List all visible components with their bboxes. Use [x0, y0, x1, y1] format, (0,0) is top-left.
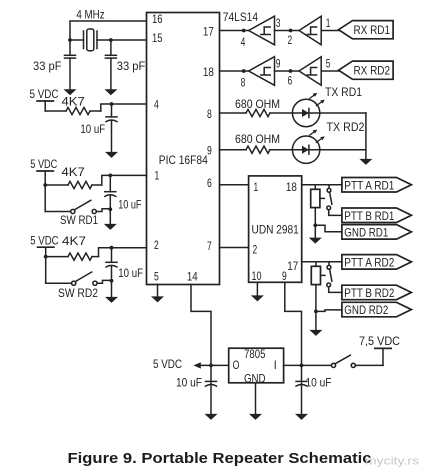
node switch/cap junction: [108, 207, 112, 211]
flag PTT B RD2: [342, 285, 412, 300]
wire 4K7 to pin 4: [101, 104, 147, 111]
svg-text:TX RD2: TX RD2: [327, 120, 365, 134]
wire LED2 to gnd rail: [320, 149, 366, 151]
inverter U2D: [299, 57, 321, 86]
node pin1/cap junction: [108, 174, 112, 178]
svg-text:GND RD1: GND RD1: [344, 225, 388, 239]
svg-text:5: 5: [326, 57, 331, 71]
wire 4K7 to pin 2: [99, 248, 147, 257]
node crystal-right junction: [109, 38, 113, 42]
wire junction to cap: [111, 248, 113, 263]
wire inverter3 out to inverter4 in: [275, 70, 300, 72]
node inverter4 input: [289, 69, 293, 73]
capacitor 10uF input: [296, 381, 307, 386]
flag PTT B RD1: [342, 208, 412, 223]
arrow 5VDC output: [194, 362, 201, 368]
svg-text:PIC 16F84: PIC 16F84: [159, 153, 208, 167]
svg-text:4: 4: [241, 35, 246, 49]
wire cap to ground: [111, 121, 113, 152]
5 VDC supply 3 (pin 2): [30, 234, 59, 284]
svg-text:6: 6: [207, 176, 212, 190]
capacitor 10uF output: [206, 381, 217, 386]
flag PTT A RD1: [342, 178, 412, 193]
wire PIC pin 6 to UDN pin 1: [220, 184, 249, 186]
node stem/resistor tap: [43, 183, 47, 187]
ground arrow RD2: [309, 330, 322, 336]
ground arrow 7805: [249, 414, 262, 420]
resistor 4K7 (pin 2): [46, 253, 99, 260]
svg-text:7805: 7805: [244, 347, 266, 361]
PIC 16F84 U1 box: [147, 13, 220, 285]
LED TX RD2: [292, 130, 324, 164]
node crystal-left junction: [68, 38, 72, 42]
wire cap to switch node: [111, 266, 113, 296]
svg-text:PTT B RD1: PTT B RD1: [344, 209, 394, 223]
wire resistor RD2 to ground node: [315, 285, 317, 312]
svg-text:2: 2: [288, 33, 293, 47]
ground arrow output cap: [205, 414, 218, 420]
switch power: [331, 355, 383, 367]
wire inverter1 out to inverter2 in: [275, 30, 300, 32]
svg-text:UDN 2981: UDN 2981: [252, 223, 300, 237]
capacitor 10uF (pin 2): [106, 262, 117, 267]
wire RD2 junction to ground: [315, 311, 317, 329]
resistor 680 ohm (pin 8): [220, 109, 293, 116]
switch PTT RD2: [327, 262, 342, 293]
wire right cap to ground: [110, 58, 112, 89]
svg-text:RX RD2: RX RD2: [354, 64, 391, 78]
UDN 2981 U3 box: [249, 176, 302, 282]
wire inverter2 out to RX RD1 flag: [321, 30, 339, 32]
svg-text:PTT A RD2: PTT A RD2: [344, 255, 394, 269]
svg-text:4: 4: [154, 98, 159, 112]
svg-text:8: 8: [241, 76, 246, 90]
svg-text:15: 15: [152, 31, 163, 45]
svg-text:I: I: [274, 358, 277, 372]
regulator 7805 box: [229, 347, 284, 386]
wire UDN pin 17 to PTT A RD2: [302, 261, 342, 263]
svg-text:4K7: 4K7: [62, 234, 86, 248]
wire RD2 junction to GND RD2 flag: [316, 310, 342, 312]
ground arrow input cap: [295, 414, 308, 420]
svg-text:5 VDC: 5 VDC: [30, 157, 57, 171]
node pin4/cap junction: [110, 102, 114, 106]
node RD2 ground junction: [314, 310, 318, 314]
wire pin15 / crystal row: [97, 39, 147, 41]
inverter U2C: [249, 57, 275, 86]
LED TX RD1: [292, 93, 324, 127]
svg-text:1: 1: [254, 180, 259, 194]
svg-text:SW RD2: SW RD2: [58, 286, 98, 300]
svg-text:680 OHM: 680 OHM: [235, 97, 280, 111]
wire UDN pin 18 to PTT A RD1: [302, 184, 342, 186]
wire UDN pin 10 to ground: [256, 282, 258, 295]
resistor pull-down RD2: [311, 266, 325, 284]
resistor 680 ohm (pin 9): [220, 146, 293, 153]
svg-text:4K7: 4K7: [62, 94, 86, 108]
ground arrow UDN pin 10: [251, 295, 264, 301]
wire RD1 junction to GND RD1 flag: [315, 225, 342, 232]
flag RX RD2: [339, 61, 394, 79]
resistor pull-down RD1: [311, 189, 325, 207]
wire PIC pin 7 to UDN pin 2: [220, 247, 249, 249]
node inverter3 input: [242, 69, 246, 73]
node RD1 ground junction: [313, 223, 317, 227]
wire branch to pull-down resistor RD1: [314, 185, 316, 190]
wire crystal left lead: [70, 39, 84, 41]
capacitor C2 33pF right: [105, 55, 116, 58]
wire right cap branch: [110, 40, 112, 55]
svg-text:16: 16: [152, 12, 163, 26]
svg-text:680 OHM: 680 OHM: [235, 132, 280, 146]
wire output cap line: [210, 365, 212, 413]
svg-text:18: 18: [203, 65, 214, 79]
switch SW RD2: [46, 272, 112, 285]
svg-text:10 uF: 10 uF: [80, 122, 105, 136]
svg-text:O: O: [233, 358, 240, 372]
ground arrow (pin1 cap): [104, 224, 117, 230]
capacitor C1 33pF left: [65, 55, 76, 58]
svg-text:TX RD1: TX RD1: [325, 85, 362, 99]
wire pin 17 to inverter input: [220, 30, 249, 32]
svg-text:17: 17: [287, 259, 298, 273]
svg-text:mycity.rs: mycity.rs: [365, 456, 420, 468]
resistor 4K7 (pin 4): [45, 107, 101, 114]
wire pin16 to crystal top: [70, 21, 147, 55]
node switch/cap junction: [110, 279, 114, 283]
wire inverter4 out to RX RD2 flag: [321, 70, 339, 72]
capacitor 10uF (pin 1): [105, 192, 116, 197]
svg-text:2: 2: [154, 238, 159, 252]
svg-text:SW RD1: SW RD1: [60, 213, 98, 227]
wire 7805 gnd: [255, 383, 257, 414]
svg-text:10 uF: 10 uF: [118, 198, 141, 212]
svg-text:5 VDC: 5 VDC: [30, 87, 59, 101]
wire branch to pull-down resistor RD2: [315, 262, 317, 267]
svg-text:10 uF: 10 uF: [176, 375, 202, 389]
resistor 4K7 (pin 1): [45, 181, 102, 188]
wire 4K7 to pin 1: [102, 175, 147, 185]
svg-text:3: 3: [276, 16, 281, 30]
svg-text:5 VDC: 5 VDC: [30, 234, 59, 248]
node stem/resistor tap: [44, 255, 48, 259]
capacitor 10uF (pin 4): [106, 117, 117, 122]
svg-text:74LS14: 74LS14: [223, 10, 258, 24]
svg-text:GND RD2: GND RD2: [344, 303, 388, 317]
wire cap to switch node: [109, 196, 111, 224]
ground arrow RD1: [309, 238, 322, 244]
svg-text:17: 17: [203, 24, 214, 38]
flag RX RD1: [339, 21, 394, 39]
svg-text:5: 5: [154, 270, 159, 284]
svg-text:PTT B RD2: PTT B RD2: [344, 286, 394, 300]
switch PTT RD1: [327, 185, 342, 216]
svg-text:18: 18: [286, 180, 297, 194]
node inverter1 input: [242, 29, 246, 33]
svg-text:Figure 9. Portable Repeater Sc: Figure 9. Portable Repeater Schematic: [68, 450, 372, 467]
node output/cap junction: [209, 364, 213, 368]
flag GND RD2: [342, 302, 412, 317]
ground arrow LED rail: [359, 159, 372, 165]
wire junction to cap: [111, 104, 113, 117]
svg-text:5 VDC: 5 VDC: [153, 357, 182, 371]
svg-text:6: 6: [288, 74, 293, 88]
7,5 VDC supply: [359, 334, 400, 366]
wire pin 5 to ground: [157, 285, 159, 297]
svg-text:8: 8: [207, 107, 212, 121]
switch SW RD1: [45, 200, 110, 213]
svg-text:1: 1: [155, 168, 160, 182]
5 VDC supply 2 (pin 1): [30, 157, 57, 212]
svg-text:9: 9: [276, 57, 281, 71]
svg-text:PTT A RD1: PTT A RD1: [344, 178, 394, 192]
svg-text:4K7: 4K7: [62, 165, 86, 179]
svg-text:33 pF: 33 pF: [33, 59, 62, 73]
wire input cap line: [301, 365, 303, 413]
5 VDC supply 1 (pin 4): [30, 87, 59, 111]
node inverter2 input: [289, 29, 293, 33]
svg-text:10 uF: 10 uF: [118, 266, 143, 280]
ground arrow pin 5: [151, 296, 164, 302]
wire resistor RD1 to ground node: [314, 208, 316, 226]
wire LED gnd rail vertical: [365, 113, 367, 159]
svg-text:9: 9: [282, 269, 287, 283]
inverter U2B: [299, 16, 321, 45]
inverter U2A: [249, 16, 275, 45]
ground arrow (pin4 cap): [105, 152, 118, 158]
flag GND RD1: [342, 225, 412, 240]
svg-text:10: 10: [252, 269, 262, 283]
svg-text:7,5 VDC: 7,5 VDC: [359, 334, 400, 348]
node input/cap junction: [300, 364, 304, 368]
svg-text:1: 1: [326, 16, 331, 30]
crystal Y1 4MHz: [84, 29, 98, 51]
svg-text:2: 2: [253, 242, 258, 256]
svg-text:10 uF: 10 uF: [306, 375, 332, 389]
wire LED1 to gnd rail: [320, 112, 366, 114]
ground arrow (pin2 cap): [105, 297, 118, 303]
svg-text:33 pF: 33 pF: [117, 59, 146, 73]
ground arrow left 33pF: [64, 89, 77, 95]
svg-text:4 MHz: 4 MHz: [76, 7, 104, 21]
node pin2/cap junction: [110, 246, 114, 250]
svg-text:7: 7: [207, 239, 212, 253]
svg-text:14: 14: [187, 270, 198, 284]
wire 7805 output: [200, 364, 229, 366]
wire pin 18 to inverter input: [220, 70, 249, 72]
wire junction to cap: [109, 175, 111, 191]
flag PTT A RD2: [342, 255, 412, 270]
wire RD1 junction to ground: [314, 225, 316, 237]
wire UDN pin 9 route: [285, 282, 302, 365]
wire pin 14 route: [191, 285, 211, 366]
wire left cap to ground: [69, 58, 71, 89]
svg-text:9: 9: [207, 144, 212, 158]
ground arrow right 33pF: [104, 89, 117, 95]
svg-text:RX RD1: RX RD1: [354, 23, 391, 37]
wire 7805 input: [284, 364, 333, 366]
